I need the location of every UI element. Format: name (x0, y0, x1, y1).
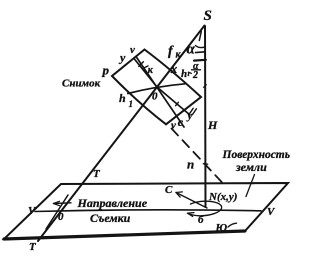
svg-text:α: α (187, 42, 196, 58)
svg-text:к: к (148, 65, 154, 76)
svg-text:0: 0 (58, 211, 64, 223)
svg-text:H: H (207, 118, 218, 132)
svg-text:ı: ı (188, 69, 190, 78)
svg-text:N(x,y): N(x,y) (208, 191, 237, 203)
svg-text:p: p (102, 63, 110, 78)
svg-text:h: h (119, 91, 126, 105)
svg-text:Направление: Направление (77, 196, 148, 210)
svg-text:0: 0 (152, 91, 158, 103)
svg-text:V: V (267, 206, 276, 218)
svg-text:Съемки: Съемки (90, 211, 131, 225)
svg-text:v: v (171, 120, 176, 132)
svg-text:h: h (181, 68, 187, 80)
svg-text:x: x (170, 61, 178, 76)
svg-text:C: C (165, 184, 173, 196)
svg-text:n: n (187, 157, 194, 172)
svg-text:Снимок: Снимок (62, 78, 101, 90)
svg-text:c: c (178, 115, 184, 129)
svg-text:б: б (198, 214, 204, 226)
svg-text:T: T (93, 168, 101, 180)
svg-text:2: 2 (192, 70, 198, 81)
svg-text:S: S (204, 8, 212, 24)
svg-text:f: f (168, 44, 174, 59)
svg-text:y: y (186, 110, 193, 122)
svg-text:T: T (29, 241, 37, 253)
svg-text:1: 1 (129, 99, 134, 109)
svg-text:земли: земли (235, 160, 267, 174)
svg-text:v: v (130, 44, 135, 56)
svg-text:y: y (118, 51, 126, 65)
svg-text:Ю: Ю (215, 222, 228, 234)
